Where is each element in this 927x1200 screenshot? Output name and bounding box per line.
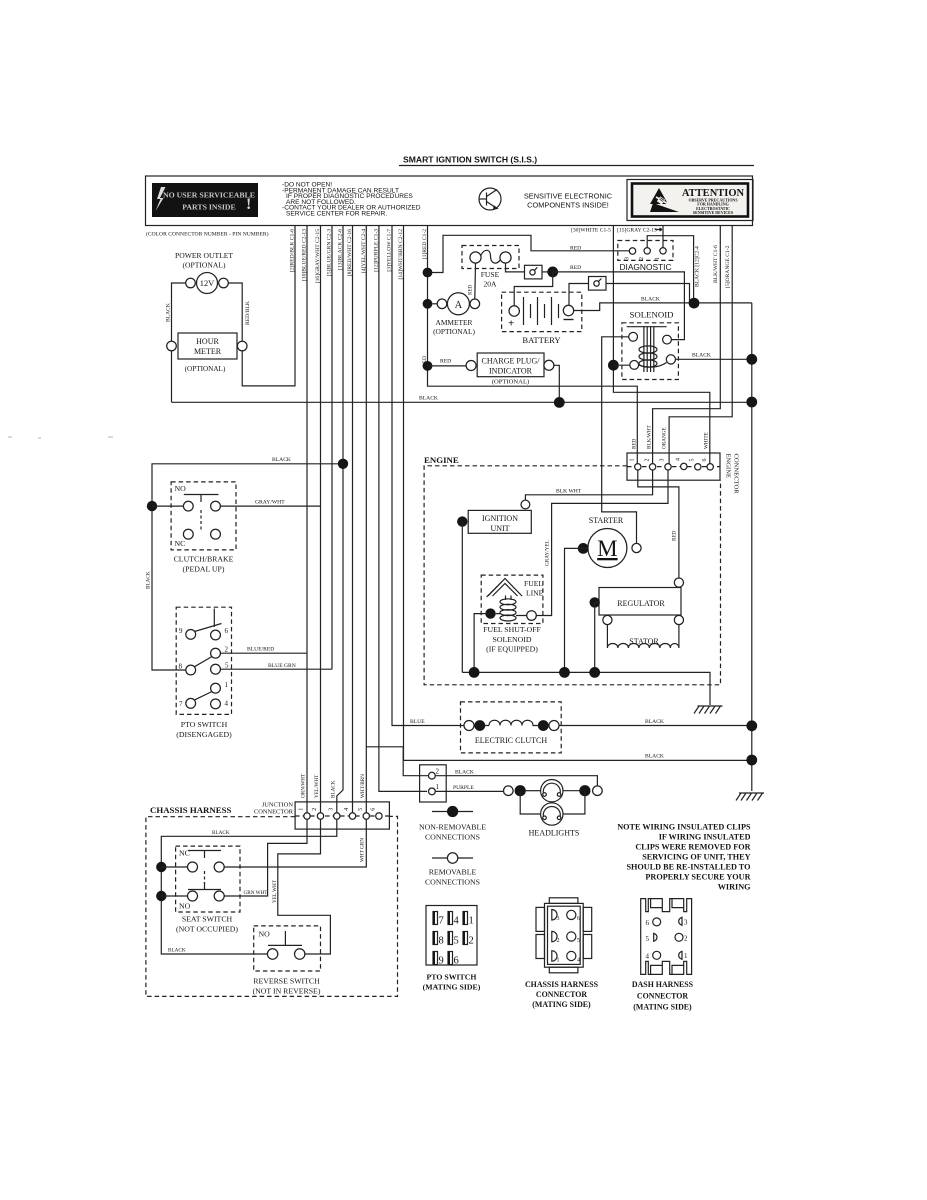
svg-text:DASH HARNESS: DASH HARNESS xyxy=(632,980,694,989)
wire GRAY from header to diagnostic pin1 xyxy=(662,226,664,248)
svg-text:(MATING SIDE): (MATING SIDE) xyxy=(423,983,481,992)
12V outlet circle xyxy=(197,273,218,294)
wire bus5 BLACK to junction pin3 xyxy=(337,226,343,813)
wire box2 right to black junction xyxy=(606,284,690,303)
svg-text:[2]RED/BLK C1-6: [2]RED/BLK C1-6 xyxy=(290,229,296,272)
node dot battery plus xyxy=(547,267,558,278)
fuel solenoid right terminal xyxy=(527,611,537,621)
pto pin 7 xyxy=(186,698,196,708)
svg-text:COMPONENTS INSIDE!: COMPONENTS INSIDE! xyxy=(527,201,609,210)
svg-text:BLACK: BLACK xyxy=(168,948,186,954)
node dot clutch feed xyxy=(147,501,157,511)
svg-text:CLIPS WERE REMOVED FOR: CLIPS WERE REMOVED FOR xyxy=(635,843,750,852)
title underline xyxy=(399,165,754,167)
svg-text:6: 6 xyxy=(225,627,229,635)
IGNITION UNIT box xyxy=(468,510,531,533)
svg-text:GRAY/WHT: GRAY/WHT xyxy=(255,500,285,506)
FUEL SHUT-OFF SOLENOID dashed box xyxy=(481,575,543,623)
svg-text:BLACK: BLACK xyxy=(641,297,660,303)
junction pins xyxy=(304,813,382,819)
wire BLK/WHT C1-6 from header xyxy=(653,226,721,464)
svg-text:NOTE WIRING INSULATED CLIPS: NOTE WIRING INSULATED CLIPS xyxy=(617,823,751,832)
svg-text:5: 5 xyxy=(454,936,459,947)
node dot bus/solenoid xyxy=(746,354,757,365)
wire bus4 BLUE/GRN to PTO pin5 xyxy=(331,226,333,669)
no-user-serviceable black label xyxy=(152,183,258,217)
svg-text:ELECTRIC CLUTCH: ELECTRIC CLUTCH xyxy=(475,736,547,745)
svg-text:GRAY/YEL: GRAY/YEL xyxy=(545,540,551,566)
svg-text:PURPLE: PURPLE xyxy=(453,785,474,791)
wire WHITE C1-5 from header to engine pin6 xyxy=(613,226,709,464)
svg-text:5: 5 xyxy=(690,459,696,462)
wire fuel solenoid to engine ground bus xyxy=(474,614,490,673)
svg-text:RED/BLK: RED/BLK xyxy=(245,301,251,325)
svg-text:(OPTIONAL): (OPTIONAL) xyxy=(185,365,226,373)
svg-text:8: 8 xyxy=(179,663,183,671)
svg-text:A: A xyxy=(455,300,463,311)
headlamp 1 xyxy=(541,780,563,802)
pto pin 8 xyxy=(186,665,196,675)
svg-text:BLACK: BLACK xyxy=(331,780,337,798)
node dot bus5 branch xyxy=(338,459,348,469)
wire coil to terminals xyxy=(496,614,527,616)
vertical bus wires from ignition switch header xyxy=(242,226,747,813)
starter right terminal xyxy=(632,543,641,552)
svg-text:1: 1 xyxy=(684,952,688,960)
svg-text:FUSE: FUSE xyxy=(481,270,500,279)
svg-text:CHASSIS HARNESS: CHASSIS HARNESS xyxy=(525,980,599,989)
battery disconnect box 2 xyxy=(589,277,607,291)
wire lamp2 parallel xyxy=(520,791,585,814)
wire seat left contacts xyxy=(161,867,187,896)
wire bus2 BLUE/RED to PTO pin2 and junction pin1 xyxy=(306,226,308,813)
wire fuse left to ammeter right xyxy=(474,263,477,299)
svg-text:(NOT IN REVERSE): (NOT IN REVERSE) xyxy=(253,987,321,996)
fuse terminal right xyxy=(500,252,511,263)
svg-text:1: 1 xyxy=(655,257,661,260)
svg-text:JUNCTION: JUNCTION xyxy=(262,802,294,809)
svg-text:LINE: LINE xyxy=(526,589,544,598)
wire box2 left to battery minus xyxy=(569,284,589,306)
svg-text:NC: NC xyxy=(175,539,186,548)
node dot headlight left xyxy=(515,785,526,796)
svg-text:METER: METER xyxy=(194,347,222,356)
pto pin 2 xyxy=(211,648,221,658)
svg-text:SERVICE CENTER FOR REPAIR.: SERVICE CENTER FOR REPAIR. xyxy=(286,211,387,218)
header warning box xyxy=(146,176,753,226)
AMMETER circle xyxy=(447,293,469,315)
svg-text:ENGINE: ENGINE xyxy=(725,454,732,479)
svg-text:POWER OUTLET: POWER OUTLET xyxy=(175,251,233,260)
right ground bus xyxy=(751,303,753,791)
pto arm 8-2 xyxy=(194,657,212,667)
svg-text:BLUE GRN: BLUE GRN xyxy=(268,663,296,669)
svg-text:STATOR: STATOR xyxy=(629,637,659,646)
wire light connector pin1 PURPLE to headlights xyxy=(435,790,503,792)
svg-text:SEAT SWITCH: SEAT SWITCH xyxy=(182,915,233,924)
wire clutch feed to NO left xyxy=(152,505,183,507)
pto arm 7-1 xyxy=(194,692,212,701)
wire junction pin1 GRN/WHT to seat NO xyxy=(224,819,307,896)
svg-text:BLUE/RED: BLUE/RED xyxy=(247,647,274,653)
svg-text:FUEL: FUEL xyxy=(524,579,543,588)
svg-text:REGULATOR: REGULATOR xyxy=(617,599,665,608)
headlight removable connection xyxy=(504,786,514,796)
svg-text:PROPERLY SECURE YOUR: PROPERLY SECURE YOUR xyxy=(645,873,750,882)
svg-text:5: 5 xyxy=(225,662,229,670)
wire charge plug right to black rail xyxy=(554,365,559,402)
node dot clutch left xyxy=(474,720,485,731)
svg-text:BLACK: BLACK xyxy=(645,719,664,725)
wire bus1 RED/BLK to hour meter xyxy=(242,226,295,386)
wire starter ground to engine bus xyxy=(565,548,588,672)
svg-text:SMART IGNTION SWITCH (S.I.S.): SMART IGNTION SWITCH (S.I.S.) xyxy=(403,155,537,165)
svg-text:2: 2 xyxy=(225,646,229,654)
fuse element curve xyxy=(481,250,501,263)
wire junction pin5 WHT/GRN to seat NC xyxy=(224,819,366,867)
svg-text:+: + xyxy=(508,318,514,330)
svg-text:5: 5 xyxy=(577,938,580,944)
svg-text:ENGINE: ENGINE xyxy=(424,455,459,465)
FUSE 20A dashed box xyxy=(462,246,519,269)
wire hour meter left down to black rail xyxy=(171,351,173,403)
ignition unit top terminal xyxy=(521,500,530,509)
hour meter terminal right xyxy=(237,341,247,351)
svg-text:(MATING SIDE): (MATING SIDE) xyxy=(532,1000,591,1009)
wire to lamp1 xyxy=(525,790,540,792)
HOUR METER box xyxy=(178,333,237,359)
outlet terminal left xyxy=(186,278,196,288)
svg-text:(IF EQUIPPED): (IF EQUIPPED) xyxy=(486,645,538,654)
node dot fuel/bus xyxy=(469,667,480,678)
wire RED battery node to solenoid contact xyxy=(553,272,685,340)
svg-text:(MATING SIDE): (MATING SIDE) xyxy=(633,1003,692,1012)
svg-text:CLUTCH/BRAKE: CLUTCH/BRAKE xyxy=(174,555,234,564)
engine ground bus xyxy=(462,672,710,705)
svg-text:SENSITIVE DEVICES: SENSITIVE DEVICES xyxy=(693,210,734,215)
svg-text:M: M xyxy=(597,536,617,561)
svg-text:DIAGNOSTIC: DIAGNOSTIC xyxy=(619,262,671,272)
svg-text:NO: NO xyxy=(259,930,271,939)
svg-text:CHASSIS HARNESS: CHASSIS HARNESS xyxy=(150,805,232,815)
svg-text:1: 1 xyxy=(436,783,440,791)
wire pto pin5 BLUE/GRN to bus4 xyxy=(220,668,332,670)
pto arm 9 xyxy=(195,624,222,632)
wire color labels above connector xyxy=(632,425,710,449)
svg-text:SOLENOID: SOLENOID xyxy=(493,635,532,644)
node dot bus/headlight black xyxy=(746,755,757,766)
solenoid coil xyxy=(639,346,657,367)
clutch contacts NO xyxy=(183,501,193,511)
svg-text:WHT/BRN: WHT/BRN xyxy=(360,774,366,798)
svg-text:NO: NO xyxy=(179,902,191,911)
svg-text:IGNITION: IGNITION xyxy=(482,514,518,523)
wire ignition ground down to engine ground bus xyxy=(461,522,463,673)
chassis harness mating connector xyxy=(536,898,592,973)
svg-text:(COLOR CONNECTOR NUMBER - PIN: (COLOR CONNECTOR NUMBER - PIN NUMBER) xyxy=(146,231,269,238)
ammeter terminal right xyxy=(470,299,480,309)
svg-text:[4]YEL/WHT C2-4: [4]YEL/WHT C2-4 xyxy=(361,229,367,273)
DIAGNOSTIC connector xyxy=(618,241,673,261)
electric clutch coil xyxy=(485,720,538,725)
svg-text:RED: RED xyxy=(570,246,581,252)
svg-text:BLACK: BLACK xyxy=(455,769,474,775)
svg-text:BLK/WHT C1-6: BLK/WHT C1-6 xyxy=(713,245,719,283)
svg-text:(OPTIONAL): (OPTIONAL) xyxy=(182,261,225,270)
legend non-removable xyxy=(432,811,473,813)
svg-text:3: 3 xyxy=(684,919,688,927)
node dot RED/charge plug xyxy=(423,361,433,371)
node dot regulator ground xyxy=(590,597,600,607)
wire bus9 BLUE to electric clutch xyxy=(392,226,464,726)
svg-text:RED: RED xyxy=(632,438,638,449)
svg-text:[3]YELLOW C1-7: [3]YELLOW C1-7 xyxy=(387,229,393,272)
headlight removable connection right xyxy=(593,786,603,796)
CLUTCH/BRAKE switch dashed box xyxy=(171,482,236,550)
svg-text:BLACK: BLACK xyxy=(419,396,438,402)
svg-text:7: 7 xyxy=(439,916,444,927)
hour meter terminal left xyxy=(167,341,177,351)
svg-text:9: 9 xyxy=(439,956,444,967)
svg-text:INDICATOR: INDICATOR xyxy=(489,367,533,376)
svg-text:!: ! xyxy=(246,196,251,213)
svg-text:WHT GRN: WHT GRN xyxy=(360,838,366,862)
wire bus3 GRAY/WHT to clutch and junction pin2 xyxy=(320,226,322,813)
outlet terminal right xyxy=(219,278,229,288)
svg-text:BLACK [12]C2-4: BLACK [12]C2-4 xyxy=(695,246,701,287)
svg-text:6: 6 xyxy=(577,916,580,922)
RED branch to diagnostic pin3 xyxy=(428,235,630,272)
node dot starter ground xyxy=(578,543,589,554)
wire diagnostic pin2 BLACK down to black junction xyxy=(647,236,693,298)
svg-text:12V: 12V xyxy=(200,279,214,288)
REGULATOR box xyxy=(599,588,681,616)
NOTE text xyxy=(617,823,751,892)
node dot ignition ground xyxy=(457,516,467,526)
chassis harness dashed boundary xyxy=(146,816,398,996)
svg-text:RED: RED xyxy=(468,284,474,295)
svg-text:4: 4 xyxy=(225,700,229,708)
svg-text:BLACK: BLACK xyxy=(146,571,152,589)
regulator bottom terminals xyxy=(603,615,612,624)
svg-text:CHARGE PLUG/: CHARGE PLUG/ xyxy=(481,357,540,366)
svg-text:2: 2 xyxy=(644,459,650,462)
wire solenoid top-left to starter xyxy=(602,337,637,544)
svg-text:BLK WHT: BLK WHT xyxy=(556,488,582,494)
node dot bus/black rail xyxy=(746,397,757,408)
svg-text:3: 3 xyxy=(557,916,560,922)
svg-text:2: 2 xyxy=(312,808,318,811)
svg-text:CONNECTOR: CONNECTOR xyxy=(637,992,688,1001)
svg-text:NO USER SERVICEABLE: NO USER SERVICEABLE xyxy=(163,191,255,200)
svg-text:STARTER: STARTER xyxy=(589,516,624,525)
svg-text:NC: NC xyxy=(179,849,190,858)
wire pto pin2 BLUE/RED to bus2 xyxy=(220,652,307,654)
wire key box to battery node xyxy=(542,271,553,273)
svg-text:HEADLIGHTS: HEADLIGHTS xyxy=(529,829,580,838)
engine ground symbol xyxy=(694,706,723,714)
wire junction pin2 YEL/WHT to reverse switch xyxy=(278,819,331,954)
svg-text:CONNECTOR: CONNECTOR xyxy=(733,454,740,495)
svg-text:[15]GRAY C2-15: [15]GRAY C2-15 xyxy=(617,228,657,234)
wire bus8 PURPLE to light connector pin1 xyxy=(379,226,427,791)
reverse contacts xyxy=(267,949,277,959)
svg-text:BLACK: BLACK xyxy=(212,830,230,836)
svg-text:BLACK: BLACK xyxy=(692,353,711,359)
svg-text:BLACK: BLACK xyxy=(272,457,291,463)
wire pin3 ORANGE to fuel solenoid xyxy=(536,470,668,616)
svg-text:REMOVABLE: REMOVABLE xyxy=(429,868,477,877)
solenoid core lines xyxy=(644,327,654,372)
wire BLACK bus5 branch to clutch/PTO xyxy=(152,464,343,670)
attention ESD label xyxy=(627,180,753,221)
svg-text:BLUE: BLUE xyxy=(410,719,425,725)
svg-text:2: 2 xyxy=(639,257,645,260)
wire outlet right xyxy=(228,283,242,341)
node dot black junction xyxy=(689,298,700,309)
svg-text:[30]WHITE C1-5: [30]WHITE C1-5 xyxy=(571,228,611,234)
BLACK ground rail across page xyxy=(172,401,752,403)
CHARGE PLUG / INDICATOR xyxy=(428,365,467,367)
wire lamp1 to right node xyxy=(563,790,580,792)
wire junction pin3 BLACK to seat switch left xyxy=(161,819,336,954)
light connector box xyxy=(420,765,447,802)
seat NC contacts xyxy=(188,862,198,872)
svg-text:SHOULD BE RE-INSTALLED TO: SHOULD BE RE-INSTALLED TO xyxy=(627,863,751,872)
svg-text:CONNECTIONS: CONNECTIONS xyxy=(425,878,480,887)
svg-text:4: 4 xyxy=(646,953,650,961)
REVERSE SWITCH dashed box xyxy=(254,926,321,971)
svg-text:SOLENOID: SOLENOID xyxy=(630,310,674,320)
svg-text:SENSITIVE ELECTRONIC: SENSITIVE ELECTRONIC xyxy=(524,192,613,201)
solenoid contact arm-right xyxy=(666,355,675,364)
svg-text:YEL WHT: YEL WHT xyxy=(272,879,278,903)
svg-text:4: 4 xyxy=(344,808,350,811)
seat plunger NC xyxy=(188,851,221,859)
wire solenoid output BLACK to right bus xyxy=(676,358,752,360)
fuse terminal left xyxy=(470,252,481,263)
svg-text:(OPTIONAL): (OPTIONAL) xyxy=(433,327,475,336)
svg-text:4: 4 xyxy=(577,958,580,964)
svg-text:RED: RED xyxy=(440,359,451,365)
svg-text:2: 2 xyxy=(684,935,688,943)
battery minus terminal xyxy=(563,305,573,315)
node dot clutch right xyxy=(538,720,549,731)
svg-text:BATTERY: BATTERY xyxy=(522,335,560,345)
svg-text:YEL/WHT: YEL/WHT xyxy=(314,774,320,798)
wire RED C1-2 rail xyxy=(428,226,638,464)
svg-text:[10]BLUE/RED C2-13: [10]BLUE/RED C2-13 xyxy=(302,229,308,281)
svg-text:20A: 20A xyxy=(483,280,497,289)
solenoid switch arm xyxy=(639,363,667,368)
headlamp 2 xyxy=(541,803,563,825)
node dot seat NC left xyxy=(156,862,166,872)
svg-text:[16]GRAY/WHT C2-15: [16]GRAY/WHT C2-15 xyxy=(315,229,321,283)
engine connector pin numbers xyxy=(630,458,709,462)
electric clutch left terminal xyxy=(464,721,474,731)
node dot bus/electric clutch xyxy=(746,720,757,731)
transistor symbol xyxy=(479,188,501,210)
pto pin 5 xyxy=(211,664,221,674)
SEAT SWITCH dashed box xyxy=(176,846,240,912)
wire fuse right to key contact box xyxy=(506,263,525,272)
svg-text:1: 1 xyxy=(225,681,229,689)
svg-text:1: 1 xyxy=(630,459,636,462)
dash harness mating connector xyxy=(641,899,692,975)
svg-text:[12]PURPLE C1-3: [12]PURPLE C1-3 xyxy=(373,229,379,272)
wire pin2 BLK/WHT to ignition unit xyxy=(525,470,652,500)
pto pin 9 xyxy=(186,630,196,640)
fuel solenoid coil xyxy=(500,596,516,622)
battery cell plates xyxy=(524,297,559,325)
svg-text:BLACK: BLACK xyxy=(645,754,664,760)
seat NO contacts xyxy=(188,891,198,901)
wire bus6 RED/WHT to junction pin4 xyxy=(352,226,354,813)
svg-text:ORANGE: ORANGE xyxy=(662,427,668,449)
pto pin 4 xyxy=(211,699,221,709)
svg-text:[14]WHT/BRN C2-12: [14]WHT/BRN C2-12 xyxy=(398,229,404,280)
svg-text:UNIT: UNIT xyxy=(490,524,509,533)
pto pin 6 xyxy=(211,630,221,640)
PTO SWITCH dashed box xyxy=(176,607,231,714)
svg-text:FUEL SHUT-OFF: FUEL SHUT-OFF xyxy=(483,625,541,634)
ground symbol right bus xyxy=(736,793,764,801)
svg-text:[5]ORANGE C1-2: [5]ORANGE C1-2 xyxy=(725,245,731,288)
wire bus10 BLACK to right ground bus xyxy=(404,226,748,760)
solenoid contact top-right xyxy=(663,335,672,344)
wire ammeter left xyxy=(432,303,437,305)
svg-text:(DISENGAGED): (DISENGAGED) xyxy=(176,730,232,739)
regulator top right terminal xyxy=(674,578,683,587)
node dot headlight right xyxy=(579,785,590,796)
wire clutch NO right GRAY/WHT to bus3 xyxy=(220,505,320,507)
reverse plunger xyxy=(268,931,302,945)
wire battery node down to battery plus xyxy=(514,272,553,306)
svg-text:3: 3 xyxy=(660,459,666,462)
svg-text:7: 7 xyxy=(179,700,183,708)
svg-text:[8]RED/WHT C2-16: [8]RED/WHT C2-16 xyxy=(347,229,353,276)
wire coil node to bottom-left contact xyxy=(613,364,629,366)
svg-text:2: 2 xyxy=(436,768,440,776)
warning text block xyxy=(282,182,421,218)
svg-text:2: 2 xyxy=(469,936,474,947)
svg-text:2: 2 xyxy=(557,938,560,944)
junction wire labels above xyxy=(301,773,366,798)
wire electric clutch BLACK to right bus xyxy=(559,725,752,727)
svg-text:PARTS INSIDE: PARTS INSIDE xyxy=(182,203,236,212)
node dot charge/black xyxy=(554,397,565,408)
ELECTRIC CLUTCH dashed box xyxy=(461,702,562,753)
electric clutch right terminal xyxy=(549,721,559,731)
node dot solenoid coil xyxy=(608,360,619,371)
solenoid contact top-left xyxy=(629,332,638,341)
svg-text:6: 6 xyxy=(702,459,708,462)
ammeter terminal left xyxy=(437,299,447,309)
svg-text:[5]BLUE/GRN C2-3: [5]BLUE/GRN C2-3 xyxy=(327,229,333,276)
svg-text:RED: RED xyxy=(570,265,581,271)
key contact box 1 xyxy=(525,265,543,279)
svg-text:4: 4 xyxy=(676,458,682,461)
svg-text:HOUR: HOUR xyxy=(196,337,219,346)
svg-text:6: 6 xyxy=(454,956,459,967)
node dot seat NO left xyxy=(156,891,166,901)
fuel line symbol xyxy=(487,579,523,598)
faint margin marks xyxy=(8,437,113,438)
svg-text:NON-REMOVABLE: NON-REMOVABLE xyxy=(419,823,486,832)
clutch contacts NC xyxy=(183,529,193,539)
junction pin numbers xyxy=(299,808,377,811)
svg-text:PTO SWITCH: PTO SWITCH xyxy=(427,973,477,982)
